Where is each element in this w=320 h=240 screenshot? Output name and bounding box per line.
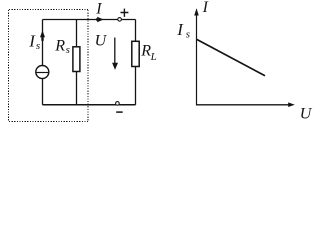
svg-text:U: U <box>95 33 108 50</box>
svg-text:s: s <box>66 44 70 56</box>
svg-text:I: I <box>202 0 209 16</box>
svg-text:I: I <box>95 1 102 18</box>
svg-text:U: U <box>300 105 313 122</box>
svg-text:R: R <box>140 43 151 60</box>
svg-text:L: L <box>150 51 157 63</box>
svg-text:s: s <box>186 28 190 40</box>
svg-text:s: s <box>36 40 40 52</box>
svg-text:R: R <box>54 38 65 55</box>
